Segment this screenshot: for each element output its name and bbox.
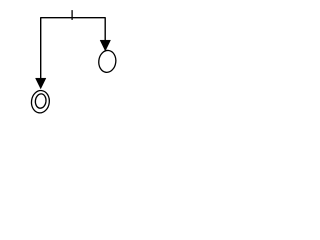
node: final state (inner ellipse) <box>35 93 47 109</box>
node: state (right ellipse) <box>98 49 118 73</box>
arrowhead: left branch <box>36 78 46 89</box>
arrowhead: right branch <box>100 40 110 51</box>
tick mark on connector <box>71 10 73 20</box>
node: final state (outer ellipse) <box>30 89 50 113</box>
wire: right branch vertical <box>104 17 106 40</box>
wire: left branch vertical <box>40 17 42 78</box>
wire: horizontal connector bar <box>41 17 106 19</box>
